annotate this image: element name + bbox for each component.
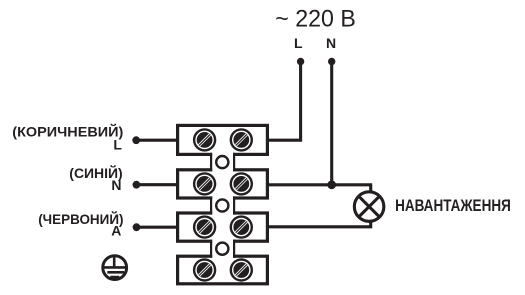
svg-text:(КОРИЧНЕВИЙ): (КОРИЧНЕВИЙ) bbox=[12, 122, 123, 139]
svg-text:~ 220 В: ~ 220 В bbox=[275, 6, 356, 33]
svg-text:НАВАНТАЖЕННЯ: НАВАНТАЖЕННЯ bbox=[395, 196, 511, 215]
svg-text:А: А bbox=[111, 223, 121, 239]
svg-text:N: N bbox=[111, 177, 121, 193]
svg-text:L: L bbox=[113, 137, 122, 153]
svg-text:N: N bbox=[326, 35, 336, 51]
svg-text:L: L bbox=[294, 35, 303, 51]
